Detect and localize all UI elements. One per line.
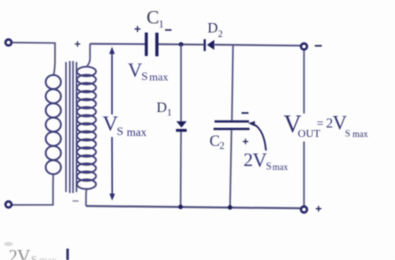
- capacitor C1 plates: [145, 33, 148, 57]
- wire top rail: C1 to D2: [158, 43, 203, 45]
- svg-text:max: max: [273, 162, 289, 172]
- wire secondary top to top rail: [87, 44, 91, 67]
- polarity + at secondary top: [75, 41, 80, 46]
- wire right edge upper segment: [303, 50, 305, 113]
- diode D1: [176, 121, 186, 127]
- svg-text:=: =: [317, 116, 324, 130]
- svg-text:2: 2: [220, 141, 225, 152]
- svg-text:S: S: [141, 69, 148, 83]
- svg-text:D: D: [208, 21, 218, 37]
- wire bottom rail: [86, 206, 301, 208]
- wire right edge lower segment: [303, 142, 305, 206]
- node A junction dot: [179, 42, 184, 47]
- polarity - at secondary bottom: [73, 200, 79, 202]
- svg-text:C: C: [147, 8, 160, 29]
- transformer core: [66, 61, 77, 193]
- svg-text:C: C: [210, 133, 220, 150]
- terminal top-left: [6, 40, 12, 46]
- terminal top-right: [301, 44, 307, 50]
- transformer T1 secondary winding: [77, 67, 96, 189]
- wire secondary bottom to bottom rail: [85, 189, 88, 206]
- terminal bottom-left: [6, 202, 12, 208]
- svg-text:S: S: [266, 162, 272, 173]
- svg-text:S: S: [31, 254, 37, 260]
- polarity + left of C1: [135, 26, 141, 32]
- svg-text:max: max: [149, 72, 168, 84]
- curved arrow for 2Vs max: [251, 124, 267, 151]
- wire top-left to transformer primary: [12, 43, 55, 76]
- svg-text:S: S: [117, 124, 124, 138]
- svg-text:1: 1: [167, 109, 172, 119]
- svg-text:max: max: [353, 129, 369, 139]
- transformer T1 primary winding: [46, 75, 61, 174]
- wire transformer primary bottom to bottom-left terminal: [12, 174, 53, 205]
- svg-text:D: D: [157, 100, 167, 116]
- polarity + below C2: [243, 139, 248, 144]
- diode D2: [204, 39, 206, 51]
- svg-text:S: S: [345, 130, 350, 140]
- wire D1 branch from node A: [180, 44, 182, 121]
- junction dot D1-bottom: [178, 205, 183, 210]
- capacitor C2 plates: [215, 120, 250, 122]
- svg-text:1: 1: [159, 19, 165, 31]
- wire D1 to bottom rail: [180, 132, 182, 207]
- polarity - at top-right terminal: [315, 45, 322, 47]
- wire C2 to bottom rail: [230, 130, 232, 207]
- svg-text:max: max: [127, 127, 147, 139]
- terminal bottom-right: [301, 207, 307, 213]
- junction dot C2-bottom: [228, 205, 233, 210]
- polarity + at bottom-right terminal: [316, 206, 322, 212]
- cropped waveform axis tick: [66, 249, 69, 260]
- Vs max arrow (secondary voltage): [111, 53, 113, 194]
- faint smudge artifact: [4, 242, 13, 246]
- svg-text:V: V: [17, 248, 31, 260]
- wire top rail: D2 to top-right terminal: [215, 44, 301, 47]
- wire top rail: secondary to C1: [90, 43, 145, 45]
- polarity - right of C1: [165, 29, 172, 31]
- svg-text:max: max: [40, 256, 57, 260]
- svg-text:2: 2: [218, 30, 223, 40]
- polarity - above C2: [242, 112, 249, 114]
- wire C2 branch from top rail: [232, 45, 233, 120]
